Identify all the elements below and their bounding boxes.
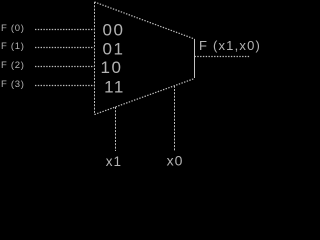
svg-text:10: 10 <box>101 58 123 77</box>
svg-text:x0: x0 <box>167 152 184 168</box>
svg-text:F (1): F (1) <box>1 41 25 52</box>
svg-text:11: 11 <box>104 78 125 97</box>
svg-text:F (x1,x0): F (x1,x0) <box>199 38 261 53</box>
svg-text:00: 00 <box>103 21 125 40</box>
svg-text:F (0): F (0) <box>1 23 25 34</box>
svg-text:F (2): F (2) <box>1 60 25 71</box>
svg-text:F (3): F (3) <box>1 79 25 90</box>
svg-text:01: 01 <box>103 40 125 59</box>
svg-text:x1: x1 <box>106 154 122 169</box>
